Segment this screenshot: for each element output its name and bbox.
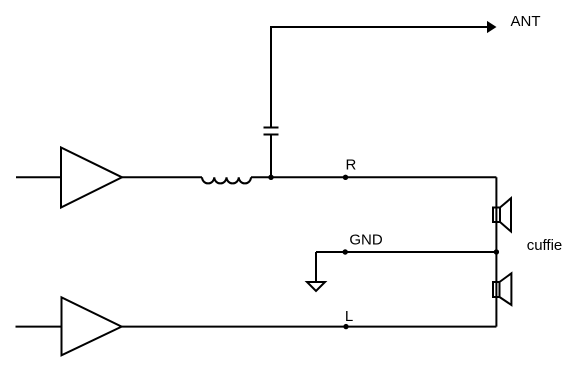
svg-text:L: L xyxy=(345,308,353,325)
svg-text:GND: GND xyxy=(349,232,383,249)
svg-text:R: R xyxy=(346,157,357,174)
svg-text:ANT: ANT xyxy=(511,13,541,30)
svg-text:cuffie: cuffie xyxy=(527,237,563,254)
